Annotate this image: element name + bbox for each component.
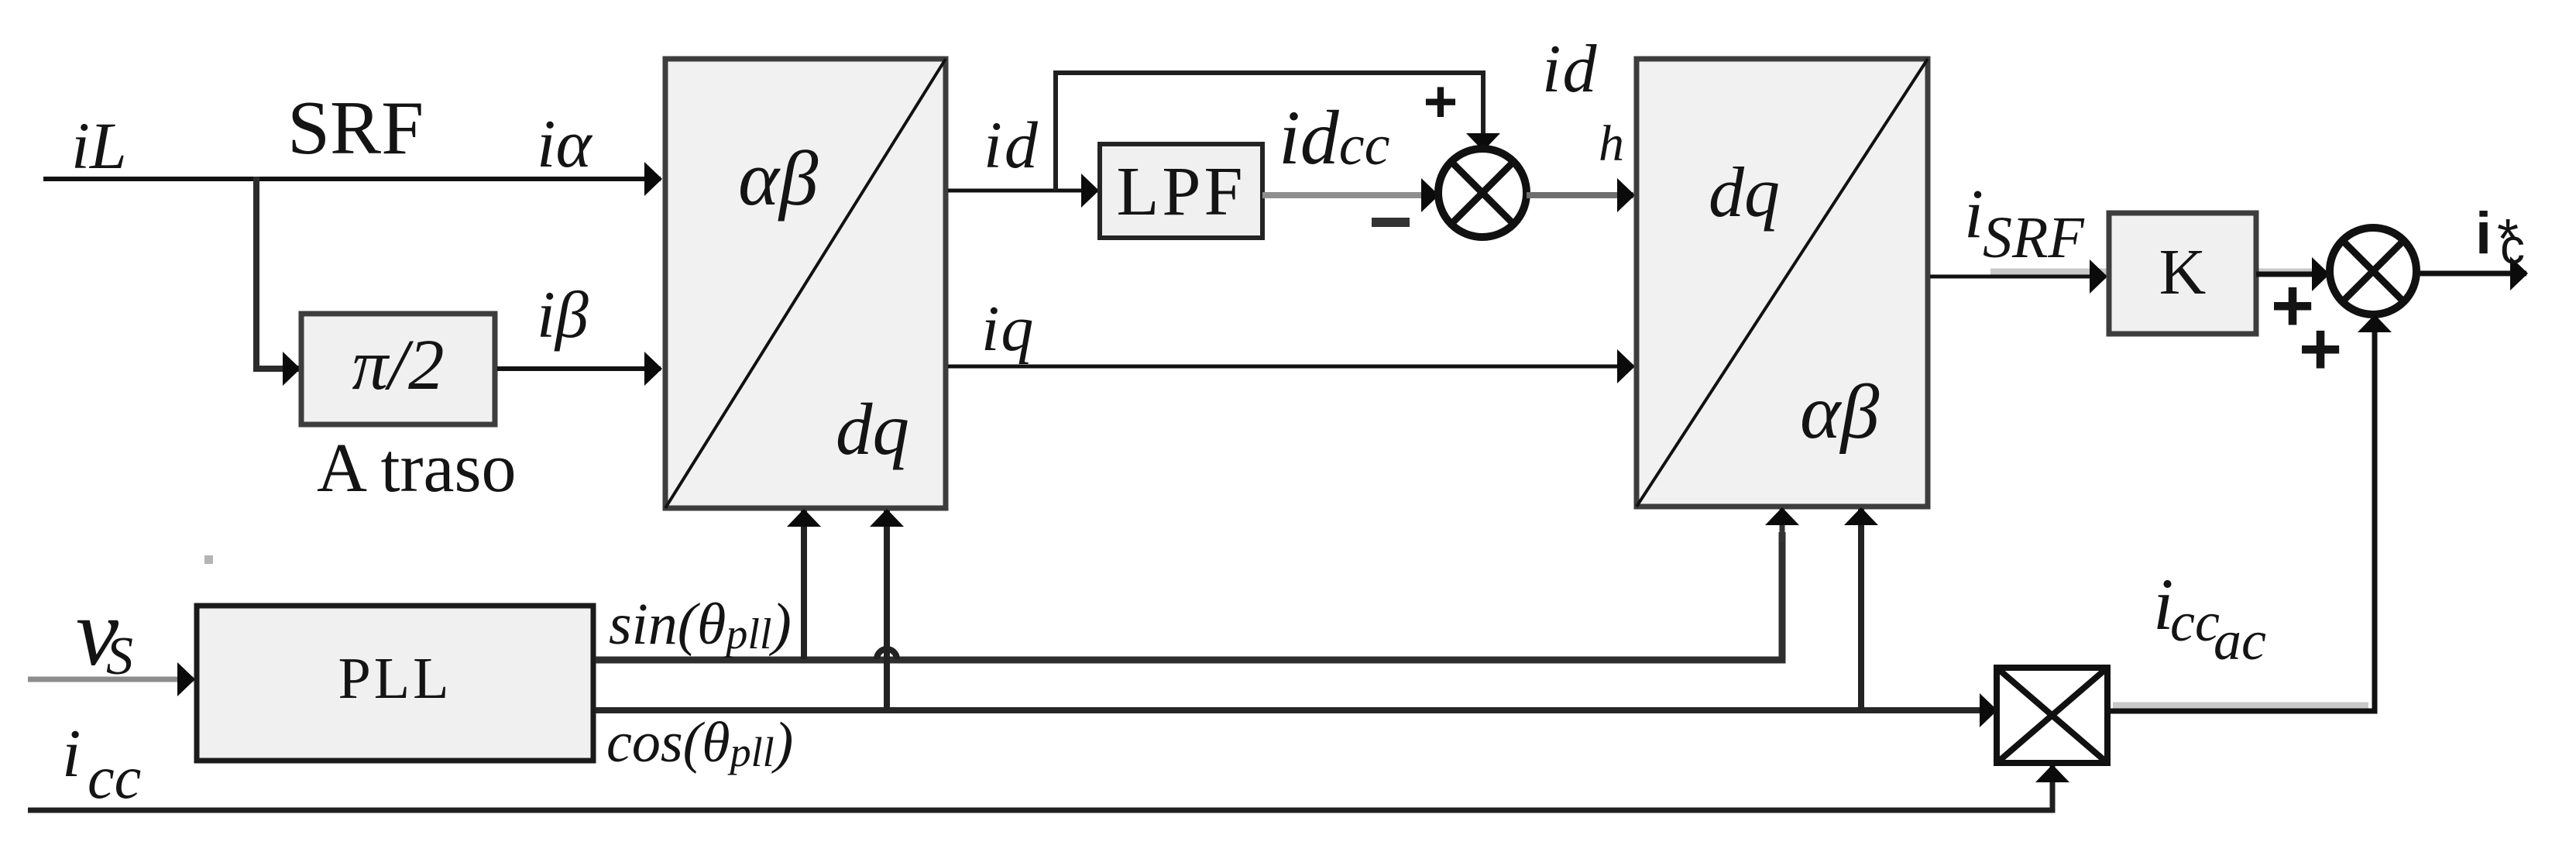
wire sin line	[596, 532, 1782, 660]
svg-text:h: h	[1599, 115, 1624, 172]
svg-text:sin(θpll): sin(θpll)	[609, 592, 792, 658]
svg-text:i: i	[2475, 201, 2492, 266]
wire vertical sin to U1	[801, 510, 807, 659]
wire output ic*	[2416, 271, 2526, 277]
block U2 dq->alphabeta transform	[1637, 59, 1928, 507]
svg-text:αβ: αβ	[1800, 369, 1879, 455]
wire idcc	[1262, 192, 1437, 198]
block U1 alphabeta->dq transform	[665, 59, 946, 508]
wire feedback arrow into summer	[1481, 116, 1485, 149]
wire arrow into summer2 bottom	[2372, 316, 2378, 345]
svg-text:idcc: idcc	[1279, 94, 1390, 180]
wire multiplier out gray highlight	[2113, 703, 2368, 710]
svg-text:dq: dq	[1709, 153, 1780, 232]
svg-text:dq: dq	[836, 388, 909, 470]
wire vertical cos to U2	[1858, 509, 1864, 710]
S1 cross	[1451, 162, 1513, 224]
svg-text:cos(θpll): cos(θpll)	[606, 711, 793, 775]
speck artifact	[204, 555, 213, 564]
hop bump over sin line	[877, 649, 897, 659]
wire K to summer2	[2256, 272, 2328, 277]
svg-text:cc: cc	[2170, 591, 2220, 653]
wire sin arrow into U2	[1780, 509, 1785, 542]
svg-text:PLL: PLL	[338, 646, 452, 711]
node branch at iL	[253, 177, 259, 369]
svg-text:c: c	[2500, 218, 2525, 274]
U2 diagonal	[1637, 59, 1928, 507]
summer S2 circle	[2330, 228, 2416, 314]
svg-text:id: id	[984, 108, 1040, 182]
svg-text:ac: ac	[2214, 610, 2266, 672]
label minus sign summer1	[1372, 218, 1410, 227]
wire h to block2	[1527, 192, 1633, 198]
U1 diagonal	[665, 59, 946, 508]
block multiplier	[1997, 668, 2107, 763]
wire i_beta	[497, 366, 661, 371]
multiplier cross	[1997, 668, 2107, 763]
svg-text:S: S	[106, 627, 133, 686]
wire i_SRF	[1930, 275, 2106, 279]
wire iL input line	[43, 177, 661, 181]
block K gain	[2109, 213, 2256, 334]
block PLL	[197, 606, 593, 761]
wire branch to pi/2	[253, 366, 299, 372]
summer S1 circle	[1438, 149, 1527, 237]
wire iq	[948, 365, 1633, 369]
svg-text:+: +	[2299, 308, 2342, 390]
svg-text:SRF: SRF	[1983, 205, 2085, 270]
svg-text:iβ: iβ	[537, 277, 589, 352]
svg-text:+: +	[1424, 69, 1458, 135]
wire vertical cos to U1 with hop	[884, 510, 890, 710]
wire summer2 bottom vertical from multiplier	[2110, 338, 2375, 711]
svg-text:iL: iL	[71, 108, 127, 183]
block LPF	[1100, 144, 1262, 238]
svg-text:K: K	[2159, 236, 2207, 308]
svg-text:αβ: αβ	[738, 135, 819, 222]
wire vs input	[28, 677, 194, 682]
svg-text:iq: iq	[981, 293, 1035, 365]
svg-text:id: id	[1542, 32, 1598, 107]
wire id output	[948, 189, 1097, 193]
S2 cross	[2343, 241, 2403, 301]
svg-text:π/2: π/2	[352, 325, 445, 405]
svg-text:A traso: A traso	[317, 430, 516, 507]
svg-text:cc: cc	[88, 744, 141, 811]
svg-text:SRF: SRF	[287, 86, 424, 170]
block pi/2 delay	[301, 314, 495, 424]
wire i_SRF gray highlight	[1990, 269, 2319, 276]
svg-text:LPF: LPF	[1116, 153, 1245, 230]
svg-text:i: i	[1964, 176, 1984, 253]
svg-text:i: i	[62, 716, 81, 792]
wire arrow into multiplier bottom	[2050, 766, 2056, 790]
wire feedback up	[1056, 73, 1483, 191]
svg-text:iα: iα	[537, 107, 592, 182]
wire icc bottom line	[28, 784, 2052, 810]
wire cos line	[596, 707, 1996, 713]
